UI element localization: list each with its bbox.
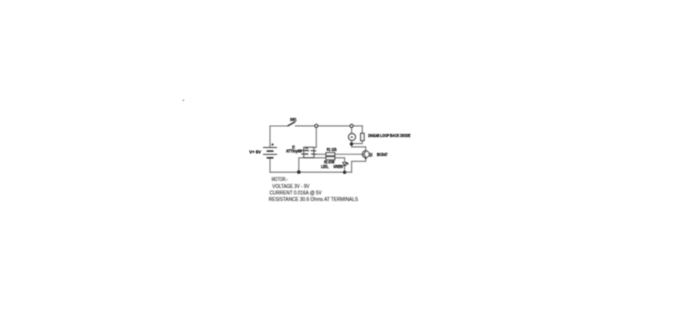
svg-text:1N4148 LOOP BACK DIODE: 1N4148 LOOP BACK DIODE (368, 133, 410, 138)
svg-text:R1 22k: R1 22k (327, 147, 337, 152)
svg-text:MOTOR:-: MOTOR:- (272, 177, 288, 183)
svg-text:V+ 5V: V+ 5V (249, 150, 261, 155)
svg-text:CURRENT 0.016A @ 5V: CURRENT 0.016A @ 5V (270, 191, 323, 197)
svg-text:SW1: SW1 (290, 117, 297, 122)
svg-text:Q1: Q1 (369, 152, 373, 157)
svg-text:VOLTAGE 3V - 9V: VOLTAGE 3V - 9V (272, 184, 309, 190)
svg-text:ATTiny85: ATTiny85 (286, 149, 302, 154)
svg-text:RESISTANCE 30.6 Ohms AT TERMI: RESISTANCE 30.6 Ohms AT TERMINALS (269, 197, 359, 203)
svg-text:LED,: LED, (321, 164, 328, 169)
svg-text:BC547: BC547 (377, 152, 388, 157)
svg-text:GREEN: GREEN (333, 164, 343, 169)
